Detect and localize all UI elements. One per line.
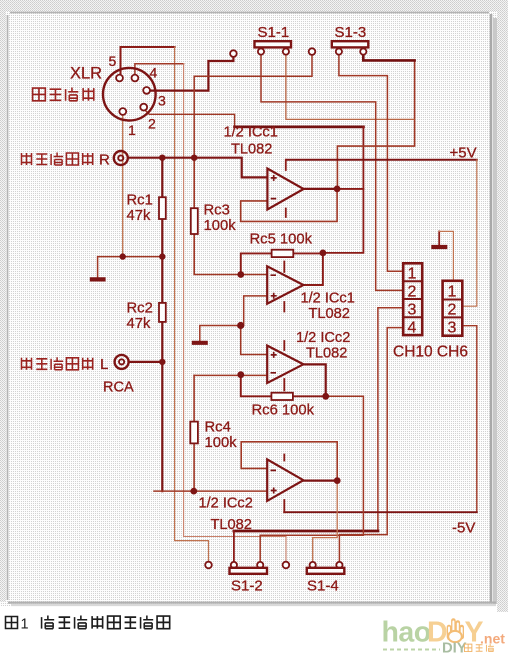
resistor Rc2 [159, 303, 166, 322]
switch S1-3 contacts [336, 49, 342, 55]
wire op4 output lead [304, 480, 338, 482]
ground symbol G2 (above CH6) [431, 245, 447, 249]
switch S1-4 bar [307, 568, 345, 574]
op-amp U1b triangle [267, 266, 303, 303]
outer margin texture [0, 0, 508, 11]
wire pin5 vertical bus down left-middle [175, 47, 209, 562]
open terminal above (pin3 net) [230, 50, 237, 57]
switch S1-2 bar [230, 568, 268, 574]
svg-text:Rc1: Rc1 [127, 193, 153, 209]
XLR pin 3 [143, 87, 150, 94]
wire ground row [98, 257, 163, 278]
wire unbalanced L row: jack to bus [129, 361, 162, 363]
wire middle ground to shared plus node [200, 326, 241, 341]
svg-text:S1-1: S1-1 [258, 24, 290, 41]
open terminal T2 [205, 562, 212, 569]
resistor Rc3 [191, 208, 198, 234]
svg-text:1/2 ICc1: 1/2 ICc1 [224, 125, 278, 141]
svg-text:TL082: TL082 [306, 346, 347, 362]
svg-text:100k: 100k [204, 218, 237, 234]
svg-text:4: 4 [408, 320, 417, 337]
wire op1 output lead [304, 188, 338, 190]
svg-text:TL082: TL082 [309, 306, 350, 322]
wire thick segment pin2 path [235, 126, 364, 129]
wire down to Rc5 right node [323, 127, 364, 253]
resistor Rc4 [190, 422, 198, 444]
wire CH6 pin3 to minus5V rail to op4 stub [462, 326, 477, 513]
wire plus5V drop to CH6 pin2 [462, 160, 477, 306]
switch S1-1 contacts [258, 49, 264, 55]
logo dashed underline [383, 649, 440, 651]
wire op3 output to Rc6 node [304, 364, 326, 396]
panel frame left [7, 15, 9, 600]
wire XLR pin3 to open terminal top [150, 57, 233, 90]
svg-text:1: 1 [21, 617, 29, 633]
svg-text:1: 1 [128, 122, 136, 138]
wire Rc1 chain from R row through ground row to Rc2 and L row [161, 158, 163, 362]
XLR pin 2 [140, 104, 147, 111]
svg-text:1: 1 [408, 266, 417, 283]
RCA jack L [115, 355, 129, 369]
switch S1-1 bar [255, 41, 292, 47]
svg-text:3: 3 [158, 93, 166, 109]
op-amp U1a triangle [267, 169, 303, 210]
ground symbol G1 [90, 277, 106, 281]
connector XLR body [103, 68, 156, 121]
svg-text:.net: .net [480, 631, 505, 647]
resistor Rc6 [271, 393, 293, 400]
svg-text:R: R [99, 152, 110, 169]
ground symbol G3 (middle) [192, 341, 208, 345]
svg-text:CH10 CH6: CH10 CH6 [393, 344, 468, 361]
wire XLR pin5 to top bend [121, 47, 175, 77]
connector CH10 outline [403, 263, 422, 335]
svg-text:4: 4 [150, 65, 158, 81]
wire XLR pin1 down through R jack to ground row [122, 115, 124, 257]
wire op4 output down to S1-4 left contact [313, 481, 338, 562]
svg-text:1: 1 [448, 284, 457, 301]
wire middle ground2 to CH6 pin1 [438, 231, 440, 245]
svg-text:5: 5 [109, 53, 117, 69]
switch S1-2 contacts [231, 562, 237, 568]
RCA jack R [114, 151, 128, 165]
panel frame right with shadow [490, 14, 493, 602]
svg-text:TL082: TL082 [231, 142, 272, 158]
connector CH6 outline [443, 281, 463, 336]
svg-text:3: 3 [448, 320, 457, 337]
switch S1-3 bar [332, 41, 369, 47]
wire S1-3 left contact to CH10 pin1 bus [339, 55, 403, 271]
op-amp U2b triangle [267, 459, 303, 501]
svg-text:L: L [100, 356, 108, 373]
wire S1-1 right contact to link line [286, 55, 415, 120]
wire S1-1 left contact to CH10 pin2 bus [261, 55, 403, 291]
svg-text:Rc2: Rc2 [127, 301, 153, 317]
wire Rc6 right lead [293, 395, 326, 397]
logo hand symbol [448, 621, 462, 643]
wire CH10 pin3 bus down to thick S1-2 line [378, 308, 403, 531]
svg-text:S1-3: S1-3 [335, 24, 367, 41]
wire op3 output down to S1-2 right contact [260, 396, 363, 562]
svg-text:2: 2 [148, 116, 156, 132]
wire op4 feedback loop [241, 442, 337, 481]
wire T1 terminal to Rc3 bus [194, 55, 312, 158]
svg-text:hao: hao [382, 617, 431, 649]
wire S1-2 left drop [233, 531, 235, 562]
switch S1-4 contacts [310, 562, 316, 568]
label 非平衡输入 R (unbalanced input R) [22, 153, 32, 165]
wire Rc5 right lead to node [293, 252, 323, 254]
svg-text:Rc4: Rc4 [205, 420, 231, 436]
wire op1 output up to S1-3 link line [337, 60, 414, 187]
svg-text:1/2 ICc2: 1/2 ICc2 [296, 330, 350, 346]
XLR pin 1 [119, 108, 126, 115]
wire Rc5 left lead down to op2 minus node [241, 253, 272, 274]
svg-text:1/2 ICc1: 1/2 ICc1 [301, 291, 355, 307]
op-amp power stubs [284, 160, 286, 512]
panel frame bottom with shadow [8, 601, 496, 603]
wire Rc4 bottom lead [193, 443, 195, 491]
wire op1 feedback loop [241, 188, 337, 222]
wire op2 output up to Rc5 node [303, 253, 323, 285]
panel frame top [10, 12, 489, 14]
wire Rc4 top lead [193, 375, 195, 421]
wire plus5V rail [286, 159, 477, 161]
wire unbalanced R row: jack to op1 plus input [128, 158, 267, 178]
wire op1 output dot to right bus [337, 188, 363, 190]
svg-text:47k: 47k [127, 316, 151, 332]
op-amp input polarity marks [271, 175, 277, 199]
svg-text:S1-2: S1-2 [231, 578, 263, 595]
svg-text:2: 2 [408, 284, 417, 301]
svg-text:47k: 47k [127, 208, 151, 224]
svg-text:Rc3: Rc3 [204, 203, 230, 219]
svg-text:+5V: +5V [450, 145, 477, 162]
svg-text:DIY: DIY [442, 641, 467, 657]
wire XLR pin4 jog [135, 64, 184, 77]
label 非平衡输入 L (unbalanced input L) [22, 358, 32, 370]
svg-text:-5V: -5V [452, 520, 475, 537]
label 平衡输入 (balanced input) [33, 88, 46, 101]
resistor Rc5 [272, 250, 294, 257]
XLR pin 4 [132, 75, 139, 82]
svg-text:1/2 ICc2: 1/2 ICc2 [199, 496, 253, 512]
wire XLR pin2 to thick line to op2 node [145, 110, 235, 127]
op-amp U2a triangle [267, 346, 303, 383]
svg-text:3: 3 [408, 302, 417, 319]
svg-text:XLR: XLR [70, 65, 102, 83]
open terminal T1 [309, 48, 316, 55]
svg-text:100k: 100k [205, 435, 238, 451]
wire op3 minus row and Rc4 top link [194, 374, 267, 376]
wire Rc6 left lead from op3 minus node [241, 375, 272, 397]
svg-text:Rc5 100k: Rc5 100k [250, 232, 313, 248]
wire op2 plus input from ground node [244, 296, 268, 326]
svg-text:Rc6 100k: Rc6 100k [252, 403, 315, 419]
wire shared plus node down to op3 plus input [241, 326, 268, 355]
wire thick line to S1-2 left contact [234, 530, 378, 533]
open terminal T3 [283, 562, 290, 569]
wire pin4 vertical bus down to T3 terminal [184, 64, 286, 562]
junction dots [159, 155, 165, 161]
wire op4 plus input row [154, 490, 267, 492]
wire S1-3 right contact thick link [363, 55, 414, 61]
wire Rc3 bottom to op2 minus row [194, 234, 267, 275]
XLR pin 5 [116, 75, 123, 82]
svg-text:RCA: RCA [103, 380, 134, 396]
wire CH10 pin4 bus down to S1-4 right contact [339, 328, 403, 562]
wire L bus down to op4 plus row [161, 362, 163, 491]
svg-text:TL082: TL082 [211, 517, 252, 533]
wire Rc3 top from R row [193, 158, 195, 209]
svg-text:2: 2 [448, 302, 457, 319]
resistor Rc1 [159, 197, 166, 219]
svg-text:S1-4: S1-4 [307, 578, 339, 595]
caption 图1 信号输入部分电路 [6, 617, 18, 629]
